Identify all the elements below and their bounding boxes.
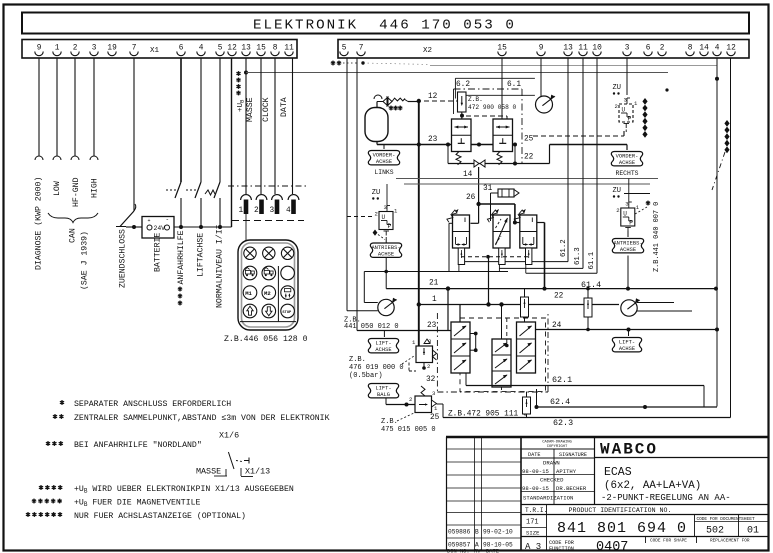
svg-text:SIGNATURE: SIGNATURE bbox=[559, 452, 587, 458]
svg-text:ZU: ZU bbox=[613, 84, 621, 92]
assembly 6 top frame bbox=[455, 77, 535, 79]
bus line lower bbox=[404, 183, 650, 185]
svg-text:M1: M1 bbox=[245, 290, 252, 297]
bellows ANTRIEBSACHSE rechts bbox=[612, 239, 643, 253]
svg-text:MASSE: MASSE bbox=[196, 467, 221, 477]
valve 0.5bar body bbox=[416, 346, 433, 363]
svg-text:15: 15 bbox=[256, 45, 266, 53]
junction battery bus left bbox=[132, 225, 136, 229]
wire X1/1 LOW bbox=[56, 58, 58, 156]
svg-text:PRODUCT IDENTIFICATION NO.: PRODUCT IDENTIFICATION NO. bbox=[569, 507, 672, 514]
wire valve E right to 62.4 bbox=[536, 389, 538, 407]
svg-text:BATTERIE: BATTERIE bbox=[154, 233, 163, 272]
svg-text:5: 5 bbox=[218, 45, 223, 53]
svg-text:LIFTACHSE: LIFTACHSE bbox=[197, 233, 206, 277]
bus 26 to junction bbox=[479, 203, 515, 205]
svg-text:P: P bbox=[628, 116, 632, 123]
svg-text:059857: 059857 bbox=[448, 542, 471, 549]
svg-text:3: 3 bbox=[625, 45, 630, 53]
wire UPL to bellows bbox=[385, 240, 387, 244]
note ** zentraler sammelpunkt bbox=[53, 414, 57, 419]
junction 62.4 b bbox=[643, 405, 647, 409]
note marker ** on ground wire bbox=[331, 61, 335, 66]
wire liftbalg to valve bbox=[385, 398, 387, 405]
valve lift E bbox=[492, 339, 511, 387]
wire valve C down bbox=[544, 223, 546, 289]
pressure gauge top bbox=[536, 96, 553, 113]
junction MASSE ground line bbox=[244, 71, 248, 75]
svg-text:+UB WIRD UEBER ELEKTRONIKPIN X: +UB WIRD UEBER ELEKTRONIKPIN X1/13 AUSGE… bbox=[74, 484, 294, 495]
svg-text:11: 11 bbox=[578, 45, 588, 53]
connector X2 housing bbox=[338, 40, 749, 59]
svg-text:21: 21 bbox=[429, 280, 439, 288]
wire X2/7 down bbox=[356, 58, 358, 331]
line 62.3 bbox=[443, 417, 731, 419]
svg-text:61.1: 61.1 bbox=[588, 251, 596, 269]
svg-text:2: 2 bbox=[254, 207, 259, 215]
svg-text:ACHSE: ACHSE bbox=[375, 347, 391, 353]
gauge right stubs bbox=[637, 302, 674, 304]
svg-text:1: 1 bbox=[239, 207, 244, 215]
svg-text:DATE: DATE bbox=[486, 549, 499, 553]
svg-text:A: A bbox=[475, 542, 479, 549]
CAN bracket bbox=[48, 213, 98, 223]
svg-text:VORDER-: VORDER- bbox=[616, 154, 639, 160]
line 1-22 bbox=[419, 304, 619, 306]
wire X2/15 to valve 6.1 bbox=[501, 58, 503, 119]
pressure switch VA rechts bbox=[619, 104, 633, 122]
supply bus wire bbox=[126, 226, 142, 228]
check valve N3 bbox=[523, 397, 531, 414]
svg-text:ELEKTRONIK 446 170 053 0: ELEKTRONIK 446 170 053 0 bbox=[253, 18, 516, 34]
line 23 lower bbox=[357, 330, 451, 332]
valve 6.2 spring bbox=[456, 152, 461, 165]
svg-text:U: U bbox=[382, 214, 386, 221]
leader UP-R bbox=[635, 207, 647, 214]
wire X2/13 down 61.2 bbox=[567, 58, 569, 262]
svg-text:441 050 012 0: 441 050 012 0 bbox=[344, 323, 399, 331]
svg-text:5: 5 bbox=[342, 45, 347, 53]
wire UP-R pin3 up bbox=[628, 179, 630, 203]
wire X1/8 DATA bbox=[274, 58, 276, 194]
bellows VORDERACHSE RECHTS bbox=[611, 152, 642, 166]
pilot dash drop valve E bbox=[506, 318, 508, 344]
check valve N2 bbox=[587, 289, 589, 298]
svg-text:ANTRIEBS-: ANTRIEBS- bbox=[371, 245, 400, 251]
svg-text:RV: RV bbox=[474, 549, 481, 553]
note marker *** under ANFAHRHILFE bbox=[178, 287, 182, 306]
svg-text:472 900 058 0: 472 900 058 0 bbox=[468, 104, 517, 111]
svg-text:RECHTS: RECHTS bbox=[615, 170, 638, 177]
svg-text:98-10-05: 98-10-05 bbox=[483, 542, 513, 549]
line 24 bbox=[536, 329, 718, 331]
svg-text:X2: X2 bbox=[423, 47, 432, 55]
svg-text:Z.B.: Z.B. bbox=[468, 96, 483, 103]
wire X2/3 to switch bbox=[626, 58, 628, 95]
svg-text:1: 1 bbox=[412, 339, 416, 346]
svg-text:62.3: 62.3 bbox=[553, 418, 573, 428]
title block numbers bbox=[521, 504, 768, 506]
svg-text:(SAE J 1939): (SAE J 1939) bbox=[80, 231, 90, 290]
wire valve D bottom bbox=[465, 373, 467, 386]
wire X1/7 bbox=[133, 58, 135, 211]
wire valve D top bbox=[459, 305, 461, 323]
svg-text:22: 22 bbox=[524, 154, 534, 162]
junction valve E bbox=[499, 302, 503, 306]
remote connector pins 1 2 3 4 bbox=[241, 195, 252, 200]
wire X2/10 down 61.1 bbox=[596, 58, 598, 273]
wire X1/4 bbox=[200, 58, 202, 182]
svg-text:13: 13 bbox=[563, 45, 573, 53]
svg-text:ZENTRALER SAMMELPUNKT,ABSTAND: ZENTRALER SAMMELPUNKT,ABSTAND ≤3m VON DE… bbox=[74, 414, 330, 423]
wire 26 to valve A bbox=[478, 204, 480, 223]
svg-text:1: 1 bbox=[394, 208, 398, 215]
svg-text:6.1: 6.1 bbox=[507, 81, 521, 89]
assembly boundary 6 dash-dot bbox=[454, 88, 523, 90]
junction 23 c bbox=[513, 143, 517, 147]
svg-text:9: 9 bbox=[539, 45, 544, 53]
svg-text:3: 3 bbox=[270, 207, 275, 215]
junction 23 a bbox=[446, 143, 450, 147]
svg-text:CLOCK: CLOCK bbox=[262, 97, 271, 122]
svg-text:CAN: CAN bbox=[69, 228, 78, 243]
svg-text:ECAS: ECAS bbox=[604, 466, 632, 479]
svg-text:1: 1 bbox=[55, 45, 60, 53]
junction 1 bbox=[417, 302, 421, 306]
junction 21 d bbox=[714, 287, 718, 291]
svg-text:Z.B.441 040 007 0: Z.B.441 040 007 0 bbox=[653, 202, 661, 272]
valve 6.1 spring bbox=[497, 152, 502, 165]
wire X1/6 bbox=[180, 58, 182, 182]
svg-text:HF-GND: HF-GND bbox=[72, 177, 81, 207]
collector to gauge corner bbox=[363, 272, 365, 303]
switch LIFTACHSE bbox=[195, 182, 201, 198]
svg-text:62.1: 62.1 bbox=[552, 375, 572, 385]
svg-text:8: 8 bbox=[688, 45, 693, 53]
wire 24 to lift bellows right bbox=[628, 330, 630, 337]
svg-text:0407: 0407 bbox=[596, 540, 628, 553]
junction 61.4 bbox=[543, 287, 547, 291]
svg-text:DIAGNOSE (KWP 2000): DIAGNOSE (KWP 2000) bbox=[34, 177, 44, 270]
junction ground right bbox=[715, 77, 719, 81]
line 62.1 bbox=[466, 385, 704, 387]
connector X1 housing bbox=[22, 40, 297, 59]
wire UPR to bellows bbox=[627, 231, 629, 238]
svg-text:26: 26 bbox=[466, 194, 476, 202]
svg-text:ZU: ZU bbox=[613, 187, 621, 195]
svg-text:ACHSE: ACHSE bbox=[376, 159, 392, 165]
marker diamonds X2/12 column bbox=[724, 120, 729, 127]
svg-text:ZU: ZU bbox=[372, 189, 380, 197]
pressure switch ANTRIEBSACHSE rechts bbox=[621, 208, 635, 226]
bellows feed right bbox=[626, 145, 628, 151]
svg-text:3: 3 bbox=[92, 45, 97, 53]
svg-text:CODE FOR SHAPE: CODE FOR SHAPE bbox=[650, 539, 687, 544]
wire valve E top bbox=[501, 304, 503, 339]
svg-text:3: 3 bbox=[624, 97, 627, 104]
junction 23 main bbox=[417, 143, 421, 147]
svg-text:476 019 000 0: 476 019 000 0 bbox=[349, 364, 404, 372]
svg-text:DR.BECHER: DR.BECHER bbox=[556, 485, 587, 492]
wire X2/4 down bbox=[716, 58, 718, 407]
svg-text:LIFT-: LIFT- bbox=[619, 340, 635, 346]
svg-text:3: 3 bbox=[384, 204, 387, 211]
line 21-61.4 bbox=[386, 288, 716, 290]
corner to lift bellows bbox=[383, 331, 385, 338]
svg-text:14: 14 bbox=[463, 171, 473, 179]
junction line24 right bbox=[715, 328, 719, 332]
svg-text:3: 3 bbox=[432, 390, 435, 397]
bellows LIFTACHSE right bbox=[612, 338, 641, 352]
pilot enclosure dashed bbox=[460, 318, 546, 392]
svg-text:2: 2 bbox=[616, 207, 619, 214]
svg-text:U: U bbox=[623, 211, 627, 218]
bellows LIFTBALG bbox=[368, 384, 398, 398]
wire X2/5 down bbox=[346, 58, 348, 311]
remote connector boundary bbox=[228, 185, 306, 187]
title block WABCO ECAS bbox=[595, 457, 768, 459]
svg-text:X1: X1 bbox=[150, 47, 160, 55]
pressure switch ANTRIEBSACHSE links bbox=[379, 212, 393, 230]
svg-text:STOP: STOP bbox=[282, 311, 292, 315]
svg-text:6: 6 bbox=[646, 45, 651, 53]
bellows ANTRIEBSACHSE links bbox=[370, 243, 401, 257]
remote control unit Z.B.446 056 128 0 bbox=[238, 240, 298, 330]
svg-text:ANFAHRHILFE: ANFAHRHILFE bbox=[177, 230, 186, 284]
svg-text:SIZE: SIZE bbox=[526, 530, 540, 537]
wire X1/3 HIGH bbox=[93, 58, 95, 156]
svg-text:+UB: +UB bbox=[237, 99, 246, 112]
wire UP-L pin3 up bbox=[386, 184, 388, 206]
wire remote pin1 to unit bbox=[245, 214, 247, 241]
svg-text:A 3: A 3 bbox=[525, 542, 541, 552]
svg-text:14: 14 bbox=[699, 45, 709, 53]
pressure gauge left bbox=[378, 299, 394, 315]
svg-text:22: 22 bbox=[554, 293, 564, 301]
svg-text:7: 7 bbox=[359, 45, 364, 53]
svg-text:475 015 005 0: 475 015 005 0 bbox=[381, 426, 436, 434]
check valve N1 bbox=[524, 289, 526, 297]
junction 21 b bbox=[446, 286, 450, 290]
junction NORMALNIVEAU bbox=[218, 225, 222, 229]
junction ANFAHRHILFE bbox=[179, 225, 183, 229]
switch NORMALNIVEAU bbox=[214, 182, 220, 198]
wire X1/15 CLOCK bbox=[260, 58, 262, 194]
svg-text:12: 12 bbox=[726, 45, 736, 53]
svg-text:4: 4 bbox=[715, 45, 720, 53]
wire to gauge left bbox=[347, 310, 378, 312]
wire X1/13 MASSE bbox=[245, 58, 247, 194]
svg-text:1: 1 bbox=[636, 204, 640, 211]
switch ZUENDSCHLOSS bbox=[120, 211, 134, 227]
svg-text:01: 01 bbox=[747, 526, 759, 537]
svg-text:98-09-15: 98-09-15 bbox=[522, 485, 549, 492]
svg-text:WABCO: WABCO bbox=[600, 441, 658, 459]
valve 6.1 body bbox=[493, 119, 513, 152]
note * separater anschluss bbox=[60, 400, 64, 405]
ground collector wire ** bbox=[246, 72, 668, 74]
svg-text:X1/13: X1/13 bbox=[245, 467, 270, 477]
svg-text:+UB FUER DIE MAGNETVENTILE: +UB FUER DIE MAGNETVENTILE bbox=[74, 499, 201, 509]
svg-text:4: 4 bbox=[286, 207, 291, 215]
svg-text:61.4: 61.4 bbox=[581, 280, 601, 290]
svg-text:SEPARATER ANSCHLUSS ERFORDERLI: SEPARATER ANSCHLUSS ERFORDERLICH bbox=[74, 400, 231, 409]
svg-text:171: 171 bbox=[526, 519, 539, 527]
line below valves bbox=[448, 163, 550, 165]
svg-text:LIFT-: LIFT- bbox=[375, 341, 391, 347]
valve 25 body bbox=[415, 396, 432, 413]
svg-text:2: 2 bbox=[73, 45, 78, 53]
svg-text:+: + bbox=[148, 218, 151, 224]
svg-text:1: 1 bbox=[634, 100, 638, 107]
title block left column bbox=[520, 437, 522, 551]
svg-text:-2-PUNKT-REGELUNG AN AA-: -2-PUNKT-REGELUNG AN AA- bbox=[601, 493, 731, 503]
svg-text:FUNCTION: FUNCTION bbox=[549, 546, 574, 552]
svg-text:X1/6: X1/6 bbox=[219, 431, 239, 441]
svg-text:24V: 24V bbox=[154, 225, 166, 232]
valve lift D bbox=[451, 322, 470, 373]
bus line upper bbox=[396, 178, 658, 180]
svg-text:NORMALNIVEAU I/II: NORMALNIVEAU I/II bbox=[215, 224, 225, 308]
leader Z.B.475 015 005 0 bbox=[397, 413, 414, 421]
wire 62 right link bbox=[703, 386, 705, 408]
pilot supply drop bbox=[488, 257, 490, 305]
marker diamond UP-L bbox=[373, 230, 378, 236]
svg-text:25: 25 bbox=[430, 414, 440, 422]
svg-text:3: 3 bbox=[625, 201, 628, 208]
svg-text:31: 31 bbox=[483, 185, 493, 193]
svg-text:32: 32 bbox=[426, 376, 436, 384]
svg-text:61.2: 61.2 bbox=[560, 239, 568, 257]
svg-text:2: 2 bbox=[427, 363, 430, 370]
wire 14 down bbox=[478, 167, 480, 204]
wire X2/12 down bbox=[730, 58, 732, 418]
wire X1/5 bbox=[219, 58, 221, 182]
svg-text:DATE: DATE bbox=[528, 452, 540, 458]
bellows VORDERACHSE LINKS bbox=[368, 151, 399, 165]
pilot dashed line bbox=[461, 256, 529, 258]
svg-text:CADAM-DRAWING: CADAM-DRAWING bbox=[542, 441, 572, 445]
main supply riser bbox=[418, 101, 420, 346]
valve D right stubs bbox=[470, 333, 476, 335]
enclosure lift valves dashdot bbox=[436, 313, 438, 392]
svg-text:15: 15 bbox=[497, 45, 507, 53]
svg-text:23: 23 bbox=[428, 136, 438, 144]
wire X1/12 +UB riser bbox=[231, 58, 233, 227]
pressure gauge right bbox=[621, 300, 637, 316]
switch ANFAHRHILFE bbox=[175, 182, 181, 198]
svg-text:ANTRIEBS-: ANTRIEBS- bbox=[613, 241, 642, 247]
bellows LIFTACHSE bbox=[368, 339, 398, 353]
ground wire B bbox=[363, 63, 430, 65]
svg-text:MASSE: MASSE bbox=[246, 97, 255, 122]
junction 26 bbox=[476, 202, 480, 206]
svg-text:P: P bbox=[629, 220, 633, 227]
wire X1/2 HF-GND bbox=[74, 58, 76, 156]
svg-text:VORDER-: VORDER- bbox=[373, 153, 396, 159]
wire X1/11 bbox=[292, 58, 294, 194]
svg-text:DRAWN: DRAWN bbox=[543, 460, 560, 467]
svg-text:24: 24 bbox=[552, 322, 562, 330]
svg-text:COPYRIGHT: COPYRIGHT bbox=[547, 445, 568, 449]
svg-text:10: 10 bbox=[592, 45, 602, 53]
svg-text:2: 2 bbox=[615, 103, 618, 110]
svg-text:25: 25 bbox=[524, 136, 534, 144]
svg-text:2: 2 bbox=[409, 396, 412, 403]
svg-text:12: 12 bbox=[227, 45, 237, 53]
junction supply bbox=[417, 99, 421, 103]
svg-text:62.4: 62.4 bbox=[550, 397, 570, 407]
wire ZU right line bbox=[624, 193, 650, 195]
svg-text:APITHY: APITHY bbox=[556, 468, 577, 475]
valve drive axle A bbox=[453, 215, 470, 248]
wire bellows AR down bbox=[627, 256, 629, 289]
throttle 14 bbox=[474, 160, 485, 167]
valve C output bbox=[537, 222, 545, 224]
svg-text:2: 2 bbox=[660, 45, 665, 53]
svg-text:LINKS: LINKS bbox=[374, 169, 393, 176]
pilot solenoid Z.B.472 900 058 0 bbox=[458, 92, 467, 112]
line 62.4 bbox=[537, 406, 718, 408]
svg-text:059886: 059886 bbox=[448, 529, 471, 536]
wire X1/9 DIAGNOSE bbox=[38, 58, 40, 156]
svg-text:CHECKED: CHECKED bbox=[540, 477, 564, 484]
svg-text:2: 2 bbox=[375, 211, 378, 218]
svg-text:-: - bbox=[166, 216, 170, 223]
svg-text:ACHSE: ACHSE bbox=[620, 247, 636, 253]
svg-text:BEI ANFAHRHILFE "NORDLAND": BEI ANFAHRHILFE "NORDLAND" bbox=[74, 440, 202, 450]
svg-text:P: P bbox=[388, 223, 392, 230]
svg-text:7: 7 bbox=[132, 45, 137, 53]
svg-text:NUR FUER ACHSLASTANZEIGE (OPTI: NUR FUER ACHSLASTANZEIGE (OPTIONAL) bbox=[74, 511, 246, 521]
line 23 top bbox=[377, 144, 452, 146]
svg-text:Z.B.446 056 128 0: Z.B.446 056 128 0 bbox=[224, 335, 308, 344]
svg-text:B: B bbox=[475, 529, 479, 536]
wire bellows AL down bbox=[385, 258, 387, 289]
wire 0.5bar down bbox=[423, 368, 425, 373]
marker diamonds right column bbox=[642, 98, 647, 105]
wire valve25 out bbox=[437, 403, 444, 405]
marker star UP-R bbox=[646, 201, 650, 206]
svg-text:12: 12 bbox=[428, 93, 438, 101]
valve lift F bbox=[517, 322, 536, 373]
wire X2/11 down 61.3 bbox=[582, 58, 584, 268]
svg-text:M2: M2 bbox=[264, 290, 271, 297]
dashed X2/5 to UP-L bbox=[347, 216, 374, 218]
svg-text:HIGH: HIGH bbox=[91, 178, 100, 198]
svg-text:99-02-10: 99-02-10 bbox=[483, 529, 513, 536]
svg-text:(6x2, AA+LA+VA): (6x2, AA+LA+VA) bbox=[604, 480, 701, 492]
svg-text:Z.B.: Z.B. bbox=[381, 418, 398, 426]
wire bellows links bbox=[383, 145, 385, 150]
svg-text:841 801 694 0: 841 801 694 0 bbox=[557, 520, 687, 537]
pilot collector bbox=[364, 271, 508, 273]
svg-text:U: U bbox=[622, 107, 626, 114]
svg-text:LIFT-: LIFT- bbox=[375, 386, 391, 392]
svg-text:ACHSE: ACHSE bbox=[619, 160, 635, 166]
svg-text:(0.5bar): (0.5bar) bbox=[349, 372, 383, 380]
svg-text:REPLACEMENT FOR: REPLACEMENT FOR bbox=[710, 539, 750, 544]
svg-text:8: 8 bbox=[273, 45, 278, 53]
svg-text:502: 502 bbox=[706, 526, 724, 537]
svg-text:19: 19 bbox=[107, 45, 117, 53]
masse switch symbol bbox=[228, 452, 234, 469]
pilot line 12 dashed bbox=[424, 100, 457, 102]
valve A output left bbox=[449, 222, 453, 224]
junction LIFTACHSE bbox=[199, 225, 203, 229]
svg-text:Z.B.: Z.B. bbox=[349, 356, 366, 364]
valve drive axle B bbox=[493, 215, 510, 248]
